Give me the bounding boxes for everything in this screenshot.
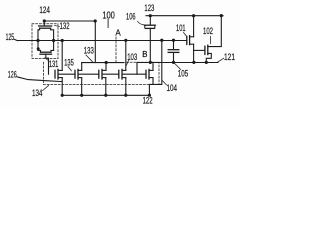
junction dot cap 105 / node A	[172, 39, 175, 42]
svg-text:125: 125	[6, 32, 15, 42]
leader line 134	[43, 85, 49, 90]
junction dot node B / output rail	[149, 61, 152, 64]
leader line 100	[107, 19, 109, 27]
svg-text:B: B	[142, 50, 147, 59]
svg-text:131: 131	[49, 59, 59, 69]
leader line 132	[55, 25, 60, 26]
junction dot cap 105 / output rail	[172, 61, 175, 64]
junction dot unit2 / bottom rail	[80, 94, 83, 97]
leader line 104	[163, 81, 167, 85]
wire gate chain segments	[59, 73, 75, 75]
wire from input 126	[17, 77, 62, 82]
wire output rail left segment	[82, 62, 124, 64]
svg-text:133: 133	[84, 46, 94, 56]
leader line 105	[175, 64, 181, 70]
wire lead from label 125 to node A rail	[14, 39, 17, 40]
svg-text:123: 123	[144, 3, 154, 13]
svg-text:121: 121	[224, 52, 235, 62]
dashed box around left block (131/132)	[32, 24, 58, 59]
svg-text:100: 100	[102, 10, 115, 21]
junction dot unit3 / bottom rail	[104, 94, 107, 97]
leader line 133	[86, 55, 93, 62]
leader line 121	[218, 58, 224, 62]
svg-text:105: 105	[178, 68, 189, 78]
junction dot 102 source / output rail	[205, 61, 208, 64]
transistor 102	[208, 16, 222, 47]
svg-text:106: 106	[126, 11, 136, 21]
capacitor 105 (bootstrap)	[173, 40, 175, 49]
transistor row unit3	[105, 63, 107, 71]
transistor 132 (upper device of left block)	[43, 21, 45, 25]
junction dot block left lower	[37, 47, 40, 50]
transistor 101	[193, 16, 195, 37]
junction dot 124/top-left rail	[43, 19, 46, 22]
svg-text:101: 101	[176, 23, 186, 33]
dashed box 133 around transistor row	[44, 62, 160, 84]
junction dot 123 terminal	[149, 14, 152, 17]
leader line 102	[209, 36, 211, 44]
transistor row unit5	[152, 62, 154, 70]
junction dot unit1 / bottom rail	[61, 94, 64, 97]
transistor 106 (top middle)	[149, 16, 151, 25]
junction dot unit1 drain / node A	[61, 39, 64, 42]
transistor row unit4	[125, 40, 127, 70]
transistor row unit1	[61, 41, 63, 71]
wire 104 (node A down to output terminal 122)	[149, 40, 161, 95]
node A dashed pointer line	[115, 37, 117, 62]
leader line 135	[68, 67, 72, 71]
svg-text:132: 132	[60, 21, 70, 31]
junction dot unit3 drain / output rail	[105, 61, 108, 64]
transistor 131 (lower device of left block)	[38, 50, 41, 52]
junction dot top rail / 101	[192, 14, 195, 17]
leader line 131	[45, 58, 49, 61]
svg-text:122: 122	[143, 96, 153, 106]
junction dot 104 drain / node A	[160, 39, 163, 42]
node A rail (horizontal)	[17, 40, 187, 42]
wire top-left rail (net 124)	[44, 20, 95, 22]
node B vertical wire	[149, 28, 151, 62]
svg-text:103: 103	[127, 52, 137, 62]
junction dot top-left rail right end	[94, 19, 97, 22]
bottom rail wire	[62, 94, 149, 96]
svg-text:A: A	[115, 28, 121, 37]
svg-text:134: 134	[32, 88, 43, 98]
svg-text:104: 104	[167, 83, 178, 93]
leader line 103	[126, 61, 128, 66]
wire output rail right segment (node B)	[137, 62, 218, 64]
wire top-right supply rail (net 123)	[146, 15, 223, 17]
leader line 101	[184, 33, 187, 37]
junction dot 101 source / output rail	[192, 61, 195, 64]
junction dot block left / node A	[36, 39, 39, 42]
junction dot unit4 drain / node A	[124, 39, 127, 42]
leader line 106	[138, 21, 145, 25]
junction dot 122 terminal	[148, 94, 151, 97]
junction dot block right / node A	[52, 39, 55, 42]
junction dot unit4 / bottom rail	[124, 94, 127, 97]
svg-text:135: 135	[64, 58, 74, 68]
wire net-124 vertical down to output rail	[94, 21, 96, 63]
transistor row unit2	[81, 63, 83, 71]
svg-text:124: 124	[39, 5, 50, 15]
svg-text:102: 102	[203, 26, 213, 36]
junction dot top rail / 102	[220, 14, 223, 17]
wire tee from output rail down to gate chain	[136, 63, 138, 75]
svg-text:126: 126	[8, 70, 17, 80]
